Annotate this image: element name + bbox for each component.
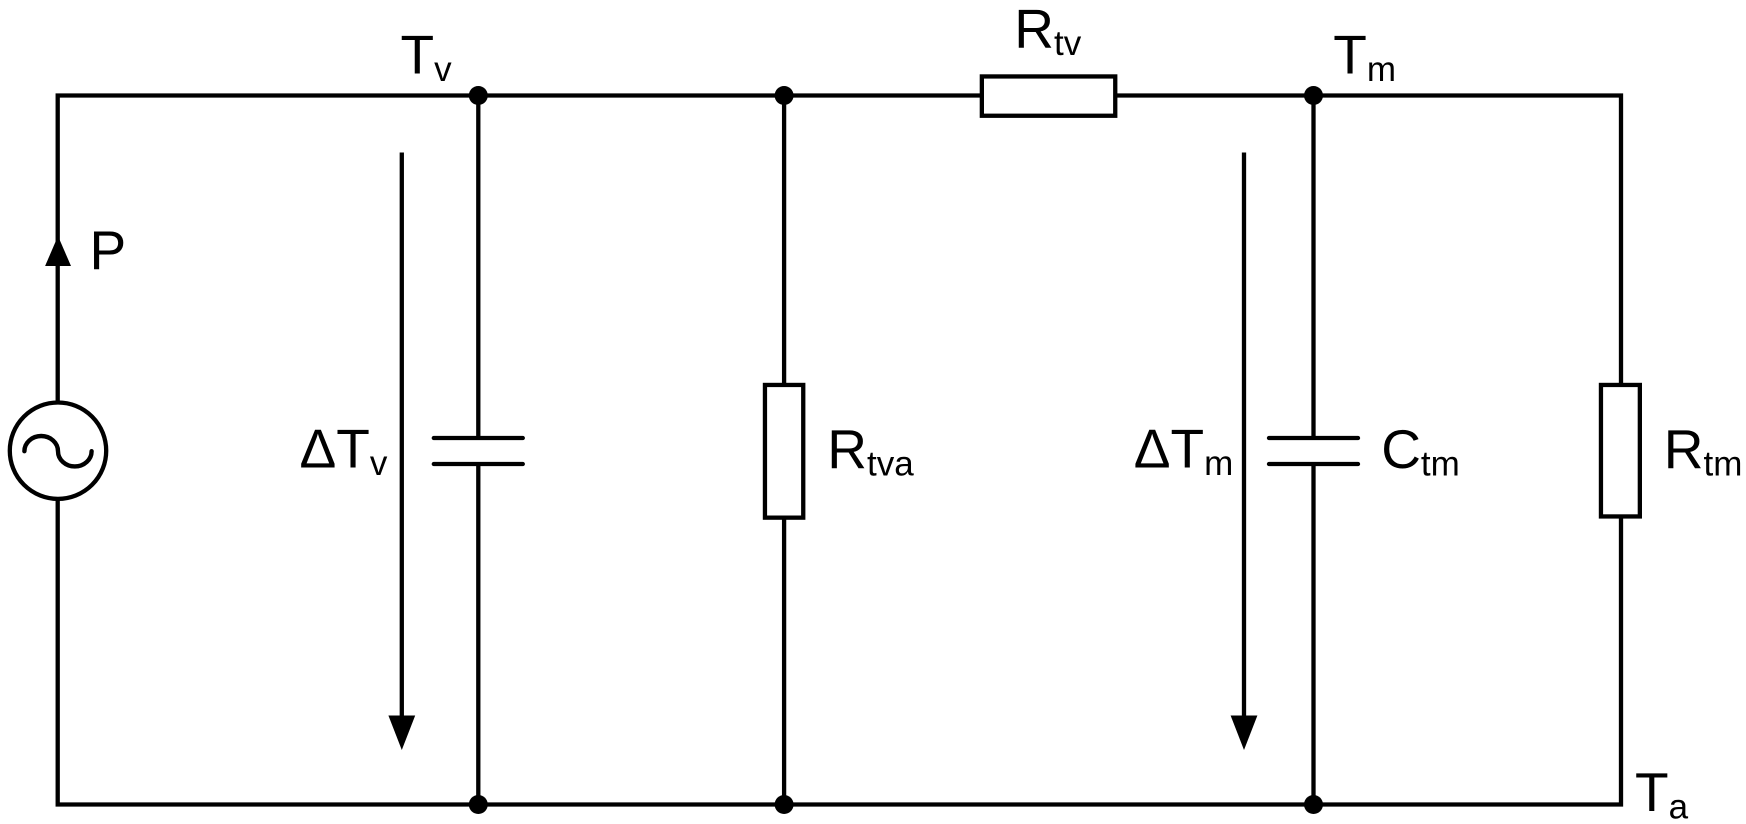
svg-text:P: P [90,219,127,281]
